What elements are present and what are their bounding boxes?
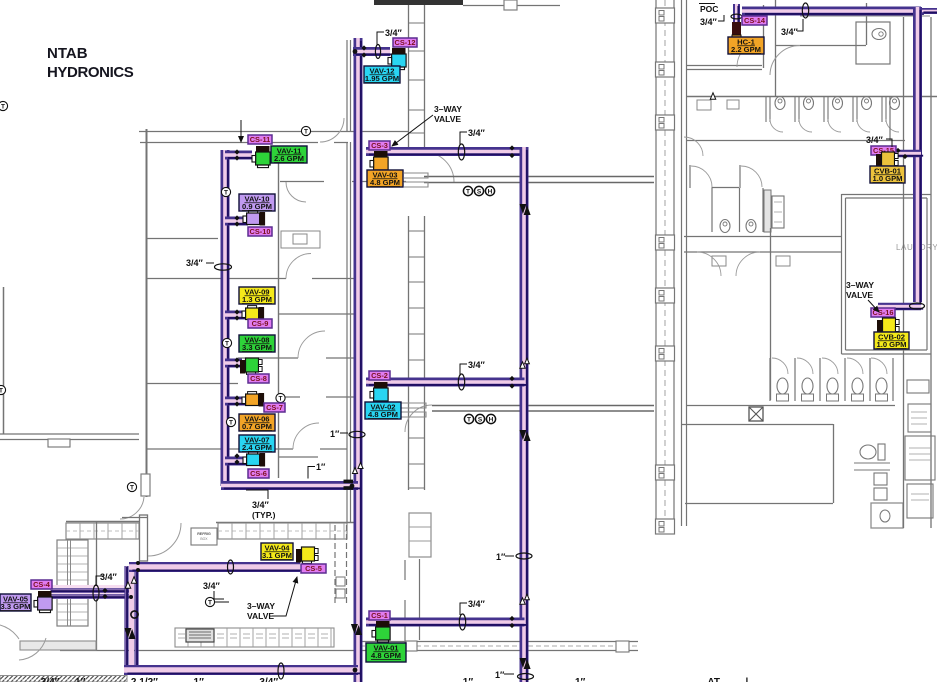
wall notch recess — [48, 439, 70, 447]
kitchen base cabinets — [175, 628, 334, 647]
door arc divider y181 — [286, 182, 306, 202]
svg-text:3/4″: 3/4″ — [385, 28, 403, 38]
duct stub VAV-02 — [400, 403, 426, 417]
svg-text:T: T — [130, 485, 134, 492]
anchor arrow CS-11 — [240, 120, 242, 142]
control valve tag CS-10 — [248, 227, 272, 236]
door arc corridor — [425, 152, 455, 182]
label VAV-11 2.6 GPM — [271, 146, 307, 163]
thermostat circle — [226, 417, 235, 426]
svg-text:T: T — [279, 396, 283, 403]
wall beside riser top — [347, 40, 351, 131]
flow arrows R1 bottom — [351, 624, 362, 635]
thermostat circle — [222, 338, 231, 347]
leader 1in R2 — [504, 673, 514, 675]
size marker branch VAV-12 — [375, 45, 380, 59]
open triangle kitchen riser — [125, 582, 130, 588]
svg-text:CS-7: CS-7 — [266, 403, 283, 412]
control valve tag CS-3 — [369, 141, 390, 150]
thermometer well circle — [131, 611, 138, 618]
valve VAV-06 — [242, 392, 264, 407]
pipe stub VAV-11 — [225, 155, 255, 158]
wall divider y314 — [278, 313, 356, 315]
wall below closet — [419, 559, 421, 640]
wall left vertical main — [146, 129, 148, 497]
control valve tag CS-8 — [248, 374, 269, 383]
wall divider y457 — [278, 456, 318, 458]
svg-text:H: H — [488, 189, 493, 196]
sink counter room right of column — [281, 231, 320, 248]
thermostat circle far left — [0, 101, 8, 110]
structural column block — [656, 115, 675, 130]
toilet stall row upper — [766, 97, 886, 122]
open triangle R1 junction — [352, 468, 357, 474]
label VAV-04 3.1 GPM — [261, 543, 293, 560]
thermostat circle — [276, 393, 285, 402]
open triangle R1 junction 2 — [358, 463, 363, 469]
svg-text:4.8 GPM: 4.8 GPM — [371, 651, 401, 660]
leader 3/4 HC-1 — [718, 15, 724, 21]
connector diamonds C1 — [234, 149, 239, 154]
svg-text:3/4″: 3/4″ — [252, 500, 270, 510]
svg-text:CS-5: CS-5 — [305, 564, 322, 573]
structural column block — [656, 288, 675, 303]
kitchen counter top row — [66, 523, 139, 539]
open triangle R2 low — [520, 598, 525, 604]
pipe VAV-05 return — [50, 594, 133, 599]
kitchen east wall segments — [404, 560, 406, 643]
valve VAV-05 — [34, 591, 52, 613]
kitchen door arc — [148, 523, 181, 556]
structural column block — [656, 62, 675, 77]
wall far-left edge — [3, 287, 5, 434]
wall divider y358 — [238, 357, 360, 359]
HC-1 room east wall — [763, 5, 765, 68]
size marker B3 — [458, 374, 464, 390]
valve VAV-09 — [242, 306, 264, 321]
corridor wall y236 — [684, 236, 841, 238]
valve VAV-02 — [370, 382, 388, 404]
top thin wall line — [463, 5, 560, 7]
connector diamonds VAV-05 — [102, 588, 107, 593]
leader 3/4 kitchen — [214, 591, 224, 599]
svg-text:CS-10: CS-10 — [250, 227, 271, 236]
junction end caps C1 run — [344, 480, 354, 484]
corridor wall upper (duct run) — [424, 177, 654, 183]
structural column block — [656, 8, 675, 23]
control valve tag CS-15 — [871, 146, 896, 155]
pipe run to VAV-04 CS-5 — [129, 567, 303, 570]
size marker VAV-05 pipes — [93, 585, 99, 601]
leader 1in C1 — [308, 467, 315, 479]
stall door arcs upper row — [770, 119, 899, 132]
wall beside riser — [347, 142, 351, 522]
flow arrows R2 upper — [519, 204, 530, 215]
svg-text:CS-3: CS-3 — [371, 141, 388, 150]
pipe junction — [350, 484, 355, 489]
size marker column C1 — [215, 264, 232, 270]
control valve tag CS-11 — [248, 135, 272, 144]
svg-text:3/4″: 3/4″ — [700, 17, 718, 27]
svg-text:CS-4: CS-4 — [33, 580, 51, 589]
bottom bathroom west wall — [833, 424, 835, 503]
svg-text:2.2 GPM: 2.2 GPM — [731, 45, 761, 54]
mirror boxes below corridor — [712, 256, 726, 266]
svg-text:3–WAY: 3–WAY — [247, 601, 275, 611]
pipe riser R2 — [524, 147, 527, 682]
wall divider y278 — [146, 278, 360, 280]
svg-text:3/4″: 3/4″ — [468, 360, 486, 370]
svg-text:3–WAY: 3–WAY — [846, 280, 874, 290]
toilet stall row lower — [770, 358, 893, 401]
control valve tag CS-9 — [248, 319, 272, 328]
control valve tag CS-16 — [871, 308, 895, 317]
X box floor drain — [749, 407, 763, 421]
strip box small — [907, 380, 929, 393]
svg-text:1″: 1″ — [316, 462, 326, 472]
svg-text:VALVE: VALVE — [247, 611, 274, 621]
door arc bottom-left — [0, 625, 46, 660]
svg-text:CS-11: CS-11 — [250, 135, 271, 144]
kitchen pantry shelving — [57, 540, 88, 626]
wall divider y383 — [146, 383, 238, 385]
pipe branch B3 VAV-02 level — [366, 382, 527, 385]
structural column block — [656, 235, 675, 250]
connector diamonds C1 — [234, 357, 239, 362]
wall upper-left second line — [140, 142, 348, 144]
wall vertical x775 — [775, 0, 777, 96]
bottom bathroom fixtures — [854, 444, 890, 500]
svg-text:3/4″: 3/4″ — [468, 599, 486, 609]
wall box at top — [504, 0, 517, 10]
valve VAV-03 — [370, 151, 388, 173]
valve CVB-01 — [876, 152, 898, 168]
HC-1 room bottom wall — [686, 66, 762, 70]
annex room — [871, 503, 903, 528]
size marker top run — [802, 3, 808, 18]
size marker bottom run — [278, 663, 284, 679]
right strip walls — [904, 17, 932, 528]
pipe junction — [136, 561, 140, 565]
leader 1in R1 — [340, 432, 348, 434]
thermostat circle — [205, 597, 214, 606]
valve VAV-04 — [296, 547, 318, 563]
size marker B2 — [458, 144, 464, 160]
svg-text:T: T — [1, 104, 5, 111]
kitchen pass-through wall — [335, 525, 347, 605]
svg-text:T: T — [225, 341, 229, 348]
label VAV-07 2.4 GPM — [239, 435, 275, 452]
pipe stub VAV-10 — [225, 221, 251, 224]
size marker CVB-02 branch — [910, 303, 925, 309]
svg-text:(TYP.): (TYP.) — [252, 510, 276, 520]
dark wall bar top — [374, 0, 463, 5]
leader 3/4 TYP — [246, 490, 268, 499]
svg-text:CS-1: CS-1 — [371, 611, 388, 620]
wall below stalls y140 — [686, 140, 905, 142]
svg-text:T: T — [208, 600, 212, 607]
duct stub VAV-03 — [404, 173, 428, 187]
leader 3/4 VAV-05 — [96, 576, 104, 586]
svg-text:4.8 GPM: 4.8 GPM — [370, 178, 400, 187]
kitchen door post — [140, 515, 148, 561]
wall column line x655-675 — [656, 0, 674, 528]
valve CVB-02 — [877, 318, 899, 334]
svg-text:3/4″: 3/4″ — [186, 258, 204, 268]
sink fixtures small room — [697, 100, 711, 110]
wall upper-left corridor line — [139, 131, 409, 133]
leader 3-way right — [868, 300, 879, 312]
svg-text:1″: 1″ — [330, 429, 340, 439]
leader 3/4 B3 — [460, 364, 467, 376]
restroom pair walls — [690, 165, 740, 188]
size marker R1 mid — [349, 431, 365, 437]
svg-text:0.9 GPM: 0.9 GPM — [242, 202, 272, 211]
wall y503 bottom — [685, 503, 833, 505]
leader 3/4 B2 — [460, 132, 467, 145]
connector diamonds B1 — [361, 45, 366, 50]
wall x890 — [889, 96, 891, 140]
svg-text:1.95 GPM: 1.95 GPM — [365, 74, 399, 83]
svg-text:S: S — [478, 417, 483, 424]
corridor wall lower — [432, 406, 654, 412]
pipe stub VAV-07 — [225, 461, 251, 464]
door arc upper-left — [320, 118, 344, 142]
label VAV-10 0.9 GPM — [239, 194, 275, 211]
svg-text:REFRIG: REFRIG — [197, 532, 211, 536]
wall divider y181 — [280, 181, 406, 183]
pipe stub VAV-08 — [225, 363, 245, 366]
counter square 1 — [406, 641, 417, 651]
pipe vertical at x126 — [124, 566, 129, 673]
wall top right y16 — [800, 15, 930, 17]
kitchen west wall — [96, 522, 98, 650]
label CVB-01 1.0 GPM — [870, 166, 905, 183]
valve VAV-10 — [243, 211, 265, 226]
svg-text:CS-12: CS-12 — [395, 38, 416, 47]
svg-text:1.3 GPM: 1.3 GPM — [242, 295, 272, 304]
svg-text:1.0 GPM: 1.0 GPM — [877, 340, 907, 349]
strip box MOP — [908, 404, 931, 432]
structural column block — [656, 346, 675, 361]
svg-text:1″: 1″ — [495, 670, 505, 680]
open triangle R2 mid 2 — [525, 358, 530, 364]
leader 3/4 C1 — [206, 262, 214, 264]
svg-text:2.6 GPM: 2.6 GPM — [274, 154, 304, 163]
pipe bottom run to R1 — [124, 670, 361, 673]
svg-text:CS-16: CS-16 — [873, 308, 894, 317]
control valve tag CS-12 — [393, 38, 417, 47]
corridor wall y252 — [684, 251, 841, 253]
pipe top run to edge — [922, 11, 937, 12]
laundry room walls — [842, 194, 846, 354]
mullion rungs — [409, 23, 425, 488]
svg-text:BOX: BOX — [200, 537, 208, 541]
bottom hatched wall band — [0, 676, 127, 682]
toilet top bathroom — [856, 22, 890, 64]
svg-text:CS-6: CS-6 — [250, 469, 267, 478]
pipe main riser R1 — [358, 38, 361, 682]
wall inner vertical x278 — [278, 162, 280, 478]
svg-text:1″: 1″ — [496, 552, 506, 562]
wall divider y449 — [146, 448, 347, 450]
pipe stub HC-1 — [737, 4, 739, 42]
wall y424 — [681, 424, 833, 426]
thermostat leader — [215, 601, 229, 603]
HC-1 room door arc — [737, 41, 763, 67]
svg-text:3/4″: 3/4″ — [100, 572, 118, 582]
connector diamonds B4 corner — [509, 616, 514, 621]
pipe stub CVB-02 — [878, 307, 923, 309]
right building west wall — [682, 0, 687, 526]
open triangle R2 — [520, 362, 525, 368]
thermostat circle — [221, 187, 230, 196]
valve VAV-12 — [388, 48, 406, 70]
control valve tag CS-14 — [742, 16, 767, 25]
size marker R2 bottom — [518, 674, 534, 680]
pipe branch B2 to VAV-03 and riser R2 — [366, 152, 527, 155]
pipe branch B4 VAV-01 level — [366, 622, 527, 625]
svg-text:T: T — [229, 420, 233, 427]
open triangle kitchen riser 2 — [131, 577, 136, 583]
pipe vertical at x136 — [134, 566, 139, 673]
sensor trio upper — [463, 186, 472, 195]
top bathroom walls — [775, 3, 867, 46]
svg-text:3/4″: 3/4″ — [781, 27, 799, 37]
bottom-left bench — [20, 641, 96, 650]
pipe junction — [353, 668, 358, 673]
pink haze VAV-05 pipes — [52, 585, 134, 599]
svg-text:3.1 GPM: 3.1 GPM — [262, 551, 292, 560]
leader 3/4 VAV-12 — [377, 32, 384, 45]
thermostat circle far left 2 — [0, 385, 6, 394]
svg-text:4.8 GPM: 4.8 GPM — [368, 410, 398, 419]
wall y405 — [686, 405, 895, 407]
pipe VAV-05 supply — [50, 588, 133, 593]
open triangle R2 low 2 — [525, 594, 530, 600]
leader 3-way top — [392, 115, 433, 146]
label VAV-05 3.3 GPM — [0, 594, 31, 611]
door arc corridor low — [405, 405, 432, 432]
pipe junction — [136, 568, 140, 572]
door arcs below corridor — [697, 252, 760, 276]
valve HC-1 — [732, 22, 741, 41]
label VAV-12 1.95 GPM — [364, 66, 400, 83]
svg-text:3.3 GPM: 3.3 GPM — [242, 343, 272, 352]
control valve tag CS-5 — [301, 564, 326, 573]
restroom door arcs — [684, 137, 762, 187]
svg-text:VALVE: VALVE — [434, 114, 461, 124]
svg-text:3.3 GPM: 3.3 GPM — [1, 602, 31, 611]
wall x770 — [770, 228, 772, 400]
svg-text:— AT —— | —: — AT —— | — — [695, 677, 761, 682]
svg-text:HYDRONICS: HYDRONICS — [47, 64, 134, 81]
restroom toilets — [720, 220, 756, 233]
svg-text:T: T — [467, 417, 471, 424]
structural column block — [656, 465, 675, 480]
open triangle wall marker — [710, 93, 715, 99]
door arc at left wall bottom — [120, 497, 144, 519]
svg-text:3/4″: 3/4″ — [203, 581, 221, 591]
REFRIG box — [191, 528, 217, 545]
svg-text:1″ —: 1″ — — [575, 677, 598, 682]
svg-text:H: H — [489, 417, 494, 424]
svg-text:CS-8: CS-8 — [250, 374, 267, 383]
size marker R2 mid — [516, 553, 532, 559]
connector diamonds C1 — [234, 395, 239, 400]
control valve tag CS-6 — [248, 469, 269, 478]
strip box cooler — [905, 436, 935, 480]
svg-text:POC: POC — [700, 4, 718, 14]
label VAV-09 1.3 GPM — [239, 287, 275, 304]
svg-text:—— 3/4″ — 1″ ———— 2 1/2″ ——— 1: —— 3/4″ — 1″ ———— 2 1/2″ ——— 1″ ————— 3/… — [18, 677, 301, 682]
svg-text:CS-9: CS-9 — [252, 319, 269, 328]
leader 3/4 B4 — [460, 603, 467, 615]
long counter wall bottom — [360, 642, 638, 651]
control valve tag CS-2 — [369, 371, 390, 380]
pipe stub CVB-01 — [878, 154, 923, 156]
label HC-1 2.2 GPM — [728, 37, 764, 54]
pipe stub VAV-06 — [225, 401, 248, 404]
kitchen top wall — [66, 522, 360, 523]
svg-text:T: T — [224, 190, 228, 197]
size marker B4 — [459, 614, 465, 630]
flow arrows kitchen riser — [124, 628, 135, 639]
door jamb block — [141, 474, 150, 496]
pipe C1 bottom run to R1 — [221, 486, 361, 489]
leader 1in R2 mid — [505, 555, 514, 557]
wall column center dash — [664, 0, 666, 528]
pipe left column C1 — [225, 150, 228, 489]
connector diamonds B2 corner — [509, 145, 514, 150]
closet by kitchen — [409, 513, 431, 557]
leader 3-way kitchen — [272, 577, 297, 616]
POC overline — [699, 3, 715, 5]
connector diamonds C1 — [234, 309, 239, 314]
corridor mullion wall — [409, 5, 425, 490]
wall divider y397 — [278, 396, 356, 398]
thermostat circle — [127, 482, 136, 491]
connector diamonds C1 — [234, 215, 239, 220]
svg-text:3–WAY: 3–WAY — [434, 104, 462, 114]
pipe junction — [353, 49, 358, 54]
pipe riser R3 right — [918, 7, 921, 305]
leader 3/4 CVB-01 — [886, 139, 892, 147]
label VAV-06 0.7 GPM — [239, 414, 275, 431]
control valve tag CS-1 — [369, 611, 390, 620]
svg-text:VALVE: VALVE — [846, 290, 873, 300]
label VAV-01 4.8 GPM — [366, 643, 406, 662]
major wall y96 — [686, 96, 937, 98]
sensor trio lower — [464, 414, 473, 423]
restroom cabinet — [764, 190, 771, 232]
valve VAV-07 — [243, 452, 265, 467]
svg-text:CS-2: CS-2 — [371, 371, 388, 380]
control valve tag CS-4 — [31, 580, 52, 589]
pipe branch to VAV-12 — [353, 52, 393, 55]
pipe junction — [129, 595, 133, 599]
control valve tag CS-7 — [264, 403, 285, 412]
valve VAV-08 — [240, 358, 262, 374]
dark equipment box in cabinets — [186, 629, 214, 642]
strip box freezer — [907, 484, 933, 518]
svg-text:3/4″: 3/4″ — [866, 135, 884, 145]
door arc right bathroom — [770, 46, 800, 76]
leader 3/4 top run — [797, 19, 803, 31]
counter square 2 — [616, 641, 629, 652]
pipe stub VAV-09 — [225, 315, 248, 318]
wall far-left bottom — [0, 434, 139, 440]
